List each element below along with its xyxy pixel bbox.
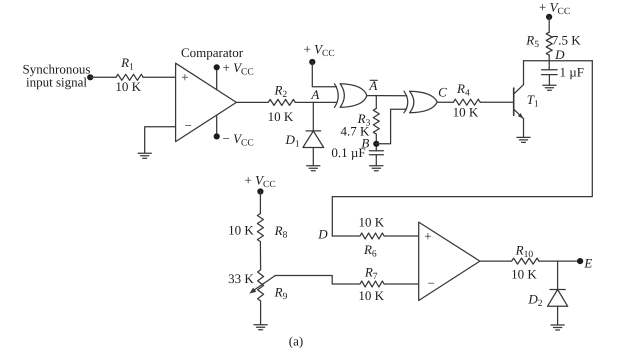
- svg-text:10 K: 10 K: [228, 223, 254, 238]
- wire R9 wiper to R7: [275, 276, 360, 285]
- label 1 uF: [560, 64, 584, 79]
- label 33 K: [228, 271, 254, 286]
- svg-text:+: +: [424, 228, 431, 243]
- resistor R8: [257, 214, 263, 242]
- label 10 K (R10): [511, 266, 537, 281]
- svg-text:10 K: 10 K: [268, 109, 294, 124]
- potentiometer R9: [249, 270, 275, 301]
- svg-text:1 µF: 1 µF: [560, 64, 584, 79]
- ground (0.1uF cap): [370, 166, 383, 171]
- svg-text:input signal: input signal: [26, 74, 87, 89]
- label 0.1 uF: [331, 145, 365, 160]
- wire 1uF cap to ground: [548, 75, 550, 86]
- label R9: [274, 285, 288, 303]
- svg-text:0.1 µF: 0.1 µF: [331, 145, 365, 160]
- ground (D2): [551, 325, 564, 330]
- svg-text:R8: R8: [274, 223, 288, 241]
- label 10 K (R4): [453, 104, 479, 119]
- svg-text:10 K: 10 K: [453, 104, 479, 119]
- ground (T1 emitter): [517, 137, 530, 142]
- power +Vcc (R8): [245, 172, 276, 194]
- svg-text:R1: R1: [120, 55, 134, 73]
- op-amp U2: [419, 222, 480, 300]
- label: Synchronous input signal: [23, 62, 91, 90]
- wire R1 to op-amp +: [143, 76, 175, 78]
- svg-text:10 K: 10 K: [358, 215, 384, 230]
- label R8: [274, 223, 288, 241]
- ground (D1): [307, 166, 320, 171]
- wire C: XOR2 output to R4: [437, 101, 453, 103]
- diode D1: [303, 131, 324, 148]
- node E: [577, 258, 583, 264]
- capacitor 0.1uF: [369, 151, 383, 155]
- label R7: [364, 265, 378, 283]
- wire node to D2: [557, 261, 559, 289]
- resistor R6: [360, 233, 384, 239]
- svg-text:10 K: 10 K: [115, 79, 141, 94]
- ground (R9): [254, 325, 267, 330]
- label 4.7 K: [341, 123, 371, 138]
- wire R6 to op-amp2 +: [384, 235, 419, 237]
- svg-text:− VCC: − VCC: [223, 131, 254, 149]
- svg-text:Comparator: Comparator: [181, 45, 244, 60]
- node D label (bottom): [317, 227, 328, 242]
- svg-text:+ VCC: + VCC: [539, 0, 570, 17]
- wire R5 to node D: [548, 55, 550, 70]
- node B label: [361, 135, 369, 150]
- svg-text:7.5 K: 7.5 K: [552, 33, 582, 48]
- wire -Vcc stub (op-amp): [216, 115, 218, 136]
- svg-text:D2: D2: [527, 292, 542, 310]
- wire op-amp minus to ground: [145, 127, 176, 154]
- power +Vcc (R5): [539, 0, 570, 20]
- wire R4 to T1 base: [480, 101, 514, 103]
- ground (op-amp inverting input): [138, 153, 151, 158]
- svg-text:10 K: 10 K: [358, 288, 384, 303]
- label R5: [525, 33, 539, 51]
- label 10 K (R8): [228, 223, 254, 238]
- wire R3 to node B: [375, 134, 377, 151]
- node B: [373, 141, 379, 147]
- node: synchronous input terminal: [87, 74, 93, 80]
- node C label: [438, 84, 447, 99]
- wire R8 to R9: [259, 242, 261, 270]
- wire +Vcc to XOR1 upper input: [312, 62, 336, 87]
- node E label: [583, 256, 592, 271]
- wire T1 collector up: [523, 61, 525, 85]
- transistor T1: [514, 85, 524, 119]
- wire D2 to ground: [557, 306, 559, 325]
- svg-text:+ VCC: + VCC: [304, 42, 335, 60]
- resistor R1: [116, 74, 143, 80]
- svg-text:R6: R6: [363, 242, 377, 260]
- wire R10 to node E: [539, 260, 580, 262]
- resistor R5: [546, 32, 552, 55]
- svg-text:(a): (a): [289, 334, 303, 349]
- svg-text:R2: R2: [273, 82, 287, 100]
- svg-text:R5: R5: [525, 33, 539, 51]
- wire Abar: XOR1 output to XOR2 upper input: [367, 95, 407, 97]
- wire +Vcc stub (op-amp): [216, 67, 218, 89]
- resistor R3: [373, 108, 379, 134]
- svg-text:A: A: [310, 87, 319, 102]
- wire cap to ground: [375, 155, 377, 166]
- wire op-amp2 output to R10: [480, 260, 512, 262]
- node D label (top): [554, 47, 565, 62]
- svg-text:A: A: [368, 78, 377, 93]
- label R2: [273, 82, 287, 100]
- diode D2: [548, 290, 568, 307]
- svg-text:10 K: 10 K: [511, 266, 537, 281]
- wire op-amp output to R2: [236, 101, 268, 103]
- label Comparator: [181, 45, 244, 60]
- XOR gate G2: [404, 91, 437, 113]
- resistor R4: [453, 99, 480, 105]
- node A label: [310, 87, 319, 102]
- svg-text:33 K: 33 K: [228, 271, 254, 286]
- wire T1 emitter to ground: [523, 119, 525, 138]
- label 7.5 K: [552, 33, 582, 48]
- label R10: [515, 242, 534, 260]
- label 10 K (R1): [115, 79, 141, 94]
- svg-text:C: C: [438, 84, 447, 99]
- wire collector rail (node D horizontal): [524, 60, 593, 62]
- svg-text:−: −: [185, 118, 192, 133]
- label 10 K (R6): [358, 215, 384, 230]
- svg-text:D: D: [554, 47, 565, 62]
- svg-text:R9: R9: [274, 285, 288, 303]
- capacitor 1uF: [542, 70, 558, 75]
- svg-text:D: D: [317, 227, 328, 242]
- svg-text:R7: R7: [364, 265, 378, 283]
- ground (1uF cap): [543, 85, 556, 90]
- wire +Vcc to R5: [548, 17, 550, 32]
- wire +Vcc to R8: [259, 192, 261, 214]
- node Abar label: [368, 78, 377, 93]
- svg-text:T1: T1: [527, 92, 539, 110]
- power +Vcc (op-amp): [214, 60, 254, 78]
- power +Vcc (node A supply): [304, 42, 335, 66]
- resistor R2: [268, 99, 295, 105]
- label 10 K (R2): [268, 109, 294, 124]
- svg-text:+ VCC: + VCC: [223, 60, 254, 78]
- wire input to R1: [90, 76, 116, 78]
- wire node B to XOR2 lower input: [376, 109, 406, 144]
- label (a): [289, 334, 303, 349]
- resistor R10: [512, 258, 539, 264]
- wire feedback rail right side down: [332, 61, 592, 236]
- svg-text:+: +: [181, 70, 188, 85]
- op-amp U1 comparator: [176, 63, 237, 141]
- power -Vcc (op-amp): [214, 131, 254, 149]
- svg-text:E: E: [583, 256, 592, 271]
- label R4: [456, 81, 470, 99]
- label D1: [285, 132, 300, 150]
- wire node A down to D1: [312, 102, 314, 130]
- svg-text:R10: R10: [515, 242, 534, 260]
- svg-text:+ VCC: + VCC: [245, 172, 276, 190]
- label T1: [527, 92, 539, 110]
- wire R2 to XOR1 lower input / node A: [295, 101, 336, 103]
- label R1: [120, 55, 134, 73]
- svg-text:−: −: [428, 276, 435, 291]
- label R6: [363, 242, 377, 260]
- wire D1 to ground: [312, 148, 314, 166]
- resistor R7: [360, 281, 384, 287]
- XOR gate G1: [335, 84, 367, 108]
- wire node D to R6: [332, 235, 360, 237]
- label R3: [357, 111, 371, 129]
- wire R7 to op-amp2 -: [384, 283, 419, 285]
- label 10 K (R7): [358, 288, 384, 303]
- wire R9 to ground: [260, 301, 262, 325]
- svg-text:D1: D1: [285, 132, 300, 150]
- svg-text:R4: R4: [456, 81, 470, 99]
- label D2: [527, 292, 542, 310]
- wire Abar down to R3: [375, 96, 377, 109]
